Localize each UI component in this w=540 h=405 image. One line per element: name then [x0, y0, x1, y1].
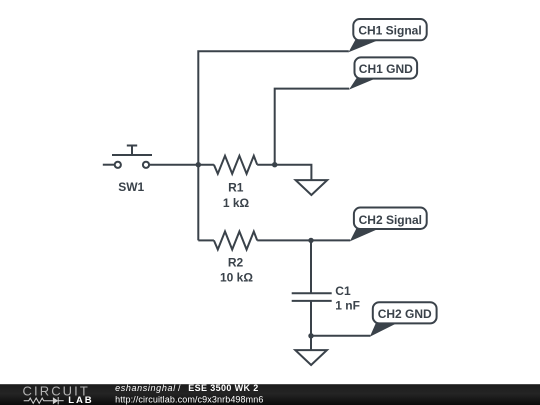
svg-text:R1: R1 — [228, 181, 244, 195]
svg-text:LAB: LAB — [68, 395, 93, 405]
svg-text:10 kΩ: 10 kΩ — [220, 271, 253, 285]
svg-text:eshansinghal: eshansinghal — [115, 383, 176, 393]
svg-text:CH2 Signal: CH2 Signal — [359, 213, 422, 227]
svg-text:CH1 GND: CH1 GND — [359, 62, 413, 76]
svg-text:1 kΩ: 1 kΩ — [223, 196, 250, 210]
svg-text:CH1 Signal: CH1 Signal — [358, 24, 421, 38]
svg-text:C1: C1 — [335, 284, 351, 298]
svg-text:SW1: SW1 — [118, 180, 144, 194]
svg-text:ESE 3500 WK 2: ESE 3500 WK 2 — [188, 383, 258, 393]
svg-text:http://circuitlab.com/c9x3nrb4: http://circuitlab.com/c9x3nrb498mn6 — [115, 394, 263, 404]
svg-text:R2: R2 — [228, 256, 244, 270]
svg-text:CH2 GND: CH2 GND — [378, 307, 432, 321]
svg-text:1 nF: 1 nF — [335, 299, 360, 313]
